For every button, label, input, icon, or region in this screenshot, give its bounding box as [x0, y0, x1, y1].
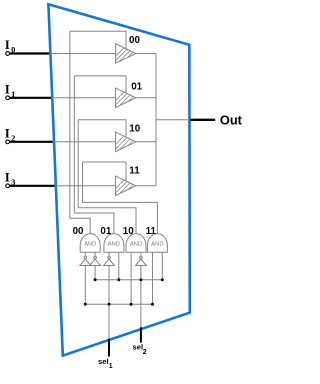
- svg-text:1: 1: [109, 363, 113, 370]
- svg-text:2: 2: [143, 349, 147, 356]
- svg-text:11: 11: [129, 166, 140, 177]
- svg-text:AND: AND: [84, 242, 96, 248]
- svg-text:I: I: [5, 37, 10, 52]
- svg-text:AND: AND: [130, 242, 142, 248]
- svg-text:01: 01: [131, 81, 142, 92]
- svg-text:I: I: [5, 169, 10, 184]
- svg-text:10: 10: [129, 124, 140, 135]
- svg-text:Out: Out: [220, 112, 243, 127]
- svg-text:0: 0: [11, 45, 15, 55]
- svg-text:3: 3: [11, 177, 15, 187]
- svg-text:00: 00: [73, 226, 84, 237]
- svg-text:sel: sel: [98, 357, 109, 366]
- svg-text:I: I: [5, 125, 10, 140]
- svg-text:11: 11: [146, 226, 157, 237]
- svg-text:10: 10: [123, 226, 134, 237]
- svg-text:01: 01: [100, 226, 111, 237]
- svg-text:2: 2: [11, 133, 15, 143]
- svg-text:1: 1: [11, 89, 15, 99]
- svg-text:AND: AND: [151, 242, 163, 248]
- svg-text:sel: sel: [133, 342, 144, 351]
- svg-text:00: 00: [129, 35, 140, 46]
- svg-text:AND: AND: [108, 242, 120, 248]
- svg-text:I: I: [5, 81, 10, 96]
